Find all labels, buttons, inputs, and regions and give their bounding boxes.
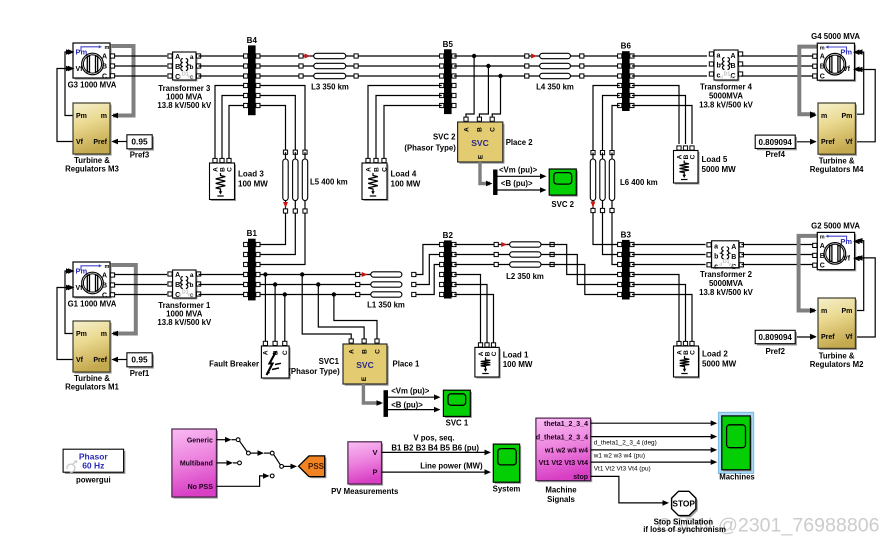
- svg-text:A: A: [820, 54, 825, 61]
- svg-text:B: B: [477, 127, 484, 132]
- svg-text:Vf: Vf: [76, 285, 84, 292]
- svg-text:B: B: [373, 167, 380, 172]
- svg-text:d_theta1_2_3_4: d_theta1_2_3_4: [536, 434, 588, 441]
- svg-text:Load 1: Load 1: [503, 351, 529, 360]
- svg-text:C: C: [226, 167, 233, 172]
- svg-text:Yg: Yg: [187, 75, 193, 80]
- svg-text:Vf: Vf: [76, 66, 84, 73]
- svg-text:E: E: [477, 154, 484, 159]
- svg-text:A: A: [365, 167, 372, 172]
- svg-text:13.8 kV/500 kV: 13.8 kV/500 kV: [699, 288, 754, 297]
- svg-text:Regulators M2: Regulators M2: [810, 360, 864, 369]
- svg-text:Vf: Vf: [845, 139, 853, 146]
- svg-text:b: b: [190, 282, 194, 289]
- svg-text:V pos, seq.: V pos, seq.: [413, 433, 454, 442]
- svg-text:L4 350 km: L4 350 km: [536, 82, 574, 91]
- svg-text:B: B: [361, 349, 368, 354]
- svg-text:<B (pu)>: <B (pu)>: [501, 179, 533, 188]
- svg-text:d: d: [720, 75, 723, 80]
- svg-text:Vf: Vf: [76, 357, 84, 364]
- svg-text:Place 1: Place 1: [393, 360, 421, 369]
- svg-text:m: m: [821, 308, 827, 315]
- svg-text:C: C: [381, 167, 388, 172]
- svg-text:Machines: Machines: [719, 473, 755, 482]
- svg-text:No PSS: No PSS: [188, 484, 214, 491]
- svg-text:G2 5000 MVA: G2 5000 MVA: [811, 221, 860, 230]
- svg-text:d: d: [719, 262, 722, 267]
- svg-text:V: V: [372, 448, 377, 457]
- svg-text:0.95: 0.95: [131, 355, 148, 365]
- svg-text:d: d: [178, 75, 181, 80]
- svg-text:Regulators M3: Regulators M3: [65, 165, 119, 174]
- svg-text:A: A: [263, 350, 270, 355]
- svg-text:100 MW: 100 MW: [503, 360, 533, 369]
- svg-text:C: C: [820, 263, 825, 270]
- svg-text:A: A: [175, 54, 180, 61]
- svg-text:w1 w2 w3 w4 (pu): w1 w2 w3 w4 (pu): [593, 453, 645, 460]
- svg-text:B3: B3: [621, 230, 632, 239]
- svg-text:d_theta1_2_3_4 (deg): d_theta1_2_3_4 (deg): [594, 439, 657, 446]
- svg-text:b: b: [717, 63, 721, 70]
- svg-text:PSS: PSS: [308, 462, 325, 471]
- svg-text:Pref: Pref: [93, 357, 107, 364]
- svg-text:B: B: [102, 283, 107, 290]
- svg-text:Transformer 2: Transformer 2: [700, 270, 753, 279]
- svg-text:b: b: [714, 253, 718, 260]
- svg-text:B5: B5: [443, 40, 454, 49]
- svg-text:B: B: [731, 254, 736, 261]
- svg-text:A: A: [212, 167, 219, 172]
- svg-text:A: A: [175, 272, 180, 279]
- svg-text:A: A: [102, 54, 107, 61]
- svg-text:Pref2: Pref2: [765, 347, 785, 356]
- svg-text:PV Measurements: PV Measurements: [331, 487, 399, 496]
- svg-text:SVC 2: SVC 2: [433, 133, 456, 142]
- svg-text:L6 400 km: L6 400 km: [620, 178, 658, 187]
- svg-text:Load 3: Load 3: [238, 170, 264, 179]
- svg-text:5000 MW: 5000 MW: [702, 165, 737, 174]
- svg-text:m: m: [101, 331, 107, 338]
- svg-text:0.95: 0.95: [131, 137, 148, 147]
- svg-text:A: A: [463, 127, 470, 132]
- svg-text:System: System: [493, 485, 521, 494]
- svg-text:Pref: Pref: [821, 334, 835, 341]
- svg-text:Regulators M1: Regulators M1: [65, 383, 119, 392]
- svg-text:if loss of synchronism: if loss of synchronism: [643, 525, 726, 534]
- svg-text:(Phasor Type): (Phasor Type): [404, 144, 456, 153]
- svg-text:SVC 2: SVC 2: [551, 200, 574, 209]
- svg-text:m: m: [820, 235, 825, 241]
- svg-text:G4 5000 MVA: G4 5000 MVA: [811, 32, 860, 41]
- svg-text:b: b: [190, 64, 194, 71]
- svg-text:Load 2: Load 2: [702, 350, 728, 359]
- svg-text:C: C: [102, 73, 107, 80]
- svg-text:B: B: [219, 167, 226, 172]
- svg-text:5000MVA: 5000MVA: [709, 279, 743, 288]
- svg-text:Vf: Vf: [845, 334, 853, 341]
- svg-text:A: A: [349, 349, 356, 354]
- svg-text:G3 1000 MVA: G3 1000 MVA: [68, 81, 117, 90]
- svg-text:Pm: Pm: [841, 308, 852, 315]
- svg-text:13.8 kV/500 kV: 13.8 kV/500 kV: [157, 318, 212, 327]
- svg-text:<Vm (pu)>: <Vm (pu)>: [499, 166, 538, 175]
- svg-text:A: A: [820, 243, 825, 250]
- svg-text:100 MW: 100 MW: [391, 180, 421, 189]
- svg-text:Pref: Pref: [93, 139, 107, 146]
- svg-text:13.8 kV/500 kV: 13.8 kV/500 kV: [699, 101, 754, 110]
- svg-text:Vf: Vf: [76, 139, 84, 146]
- svg-text:A: A: [730, 53, 735, 60]
- svg-text:STOP: STOP: [672, 498, 695, 508]
- svg-text:B4: B4: [247, 36, 258, 45]
- svg-text:5000 MW: 5000 MW: [702, 360, 737, 369]
- svg-text:Yg: Yg: [728, 262, 734, 267]
- svg-text:Vf: Vf: [843, 66, 851, 73]
- svg-text:Load 5: Load 5: [702, 155, 728, 164]
- svg-text:Transformer 4: Transformer 4: [700, 83, 753, 92]
- svg-text:P: P: [372, 468, 377, 477]
- svg-text:B1: B1: [247, 229, 258, 238]
- svg-text:B2: B2: [443, 231, 454, 240]
- svg-text:SVC 1: SVC 1: [446, 419, 469, 428]
- svg-text:Machine: Machine: [545, 486, 577, 495]
- svg-text:B: B: [820, 253, 825, 260]
- svg-text:5000MVA: 5000MVA: [709, 92, 743, 101]
- svg-text:C: C: [689, 350, 696, 355]
- svg-text:m: m: [105, 45, 110, 51]
- svg-text:w1 w2 w3 w4: w1 w2 w3 w4: [544, 448, 588, 455]
- svg-text:L3 350 km: L3 350 km: [311, 83, 349, 92]
- svg-text:L5 400 km: L5 400 km: [310, 177, 348, 186]
- svg-text:Generic: Generic: [187, 437, 213, 444]
- svg-text:Fault Breaker: Fault Breaker: [209, 360, 259, 369]
- svg-text:100 MW: 100 MW: [238, 180, 268, 189]
- svg-text:<Vm (pu)>: <Vm (pu)>: [391, 387, 430, 396]
- svg-text:60 Hz: 60 Hz: [82, 460, 104, 470]
- svg-text:B: B: [102, 64, 107, 71]
- svg-text:C: C: [689, 154, 696, 159]
- svg-text:Line power (MW): Line power (MW): [420, 462, 483, 471]
- svg-text:d: d: [178, 293, 181, 298]
- svg-text:C: C: [282, 350, 289, 355]
- svg-text:Pm: Pm: [76, 331, 87, 338]
- svg-text:Pref3: Pref3: [130, 151, 150, 160]
- svg-text:Yg: Yg: [729, 75, 735, 80]
- svg-text:Pref4: Pref4: [765, 150, 785, 159]
- svg-text:Signals: Signals: [547, 495, 575, 504]
- svg-text:a: a: [714, 243, 718, 250]
- svg-text:m: m: [101, 113, 107, 120]
- svg-text:A: A: [102, 273, 107, 280]
- svg-text:Pm: Pm: [76, 113, 87, 120]
- svg-text:C: C: [820, 74, 825, 81]
- svg-text:<B (pu)>: <B (pu)>: [391, 401, 423, 410]
- svg-text:SVC: SVC: [356, 360, 373, 370]
- svg-text:Place 2: Place 2: [506, 138, 534, 147]
- svg-text:L2 350 km: L2 350 km: [506, 272, 544, 281]
- svg-text:m: m: [821, 113, 827, 120]
- svg-text:L1 350 km: L1 350 km: [367, 300, 405, 309]
- svg-text:C: C: [491, 351, 498, 356]
- svg-text:a: a: [717, 53, 721, 60]
- svg-text:B: B: [820, 64, 825, 71]
- svg-text:0.809094: 0.809094: [759, 333, 793, 342]
- svg-text:Vt1 Vt2 Vt3 Vt4: Vt1 Vt2 Vt3 Vt4: [539, 460, 589, 467]
- svg-text:SVC: SVC: [471, 138, 488, 148]
- svg-text:stop: stop: [573, 474, 588, 481]
- svg-text:Pref1: Pref1: [130, 369, 150, 378]
- svg-text:0.809094: 0.809094: [759, 138, 793, 147]
- svg-text:A: A: [731, 244, 736, 251]
- svg-text:Multiband: Multiband: [180, 461, 213, 468]
- svg-text:theta1_2_3_4: theta1_2_3_4: [544, 421, 588, 428]
- svg-text:a: a: [190, 54, 194, 61]
- svg-text:Vt1 Vt2 Vt3 Vt4 (pu): Vt1 Vt2 Vt3 Vt4 (pu): [594, 466, 651, 473]
- svg-text:m: m: [105, 264, 110, 270]
- svg-text:Load 4: Load 4: [391, 170, 417, 179]
- svg-text:C: C: [490, 127, 497, 132]
- svg-text:E: E: [361, 376, 368, 381]
- svg-text:Yg: Yg: [187, 293, 193, 298]
- svg-text:G1 1000 MVA: G1 1000 MVA: [68, 300, 117, 309]
- svg-text:(Phasor Type): (Phasor Type): [288, 367, 340, 376]
- svg-text:Pref: Pref: [821, 139, 835, 146]
- svg-text:13.8 kV/500 kV: 13.8 kV/500 kV: [157, 101, 212, 110]
- svg-text:m: m: [820, 45, 825, 51]
- svg-text:Vf: Vf: [843, 255, 851, 262]
- svg-text:powergui: powergui: [76, 476, 111, 485]
- svg-text:Regulators M4: Regulators M4: [810, 165, 864, 174]
- svg-text:C: C: [102, 292, 107, 299]
- svg-text:SVC1: SVC1: [319, 357, 340, 366]
- svg-text:B1 B2 B3 B4 B5 B6 (pu): B1 B2 B3 B4 B5 B6 (pu): [391, 444, 479, 453]
- svg-text:a: a: [190, 272, 194, 279]
- svg-text:B6: B6: [621, 42, 632, 51]
- svg-text:Pm: Pm: [841, 113, 852, 120]
- svg-text:C: C: [374, 349, 381, 354]
